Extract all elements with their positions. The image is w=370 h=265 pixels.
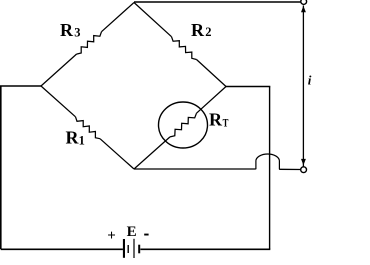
wire hop (crossover of right vertical bus) [256,154,280,169]
wire: diamond bottom-left segment (R1 to bottom vertex) [100,139,134,169]
resistor RT (thermistor) [170,113,197,137]
svg-text:E: E [127,224,137,240]
terminal (bottom, open circle) [301,167,307,173]
svg-text:+: + [107,228,116,244]
resistor R1 [76,117,101,139]
wire: left vertical bus [0,86,2,249]
label - [144,234,148,236]
wire: diamond top-left segment (left vertex to R3) [41,54,77,86]
wire: diamond bottom-right segment (bottom vertex to RT) [134,137,170,169]
wire: right vertex to right bus corner [226,86,270,88]
svg-text:R: R [66,128,80,148]
svg-text:2: 2 [205,25,211,39]
svg-text:3: 3 [74,26,80,40]
terminal (top, open circle) [301,0,307,4]
battery E: plate 1 (long, +) [123,239,125,258]
arrowhead (current i, down) [301,159,306,165]
wire: diamond bottom-left segment (left vertex to R1) [41,86,76,117]
svg-text:R: R [60,20,74,40]
wire: hop to bottom terminal [279,168,301,170]
battery E: plate 3 (long) [133,239,134,258]
arrowhead (current i, up) [301,6,306,12]
battery E: plate 4 (short, -) [138,245,140,254]
resistor R3 [77,32,102,54]
battery E: plate 2 (short) [128,245,129,253]
wire: top vertex to top terminal [134,1,301,3]
wire: bottom vertex to hop [134,168,256,170]
svg-text:T: T [223,116,229,130]
svg-text:R: R [209,109,223,129]
wire: diamond bottom-right segment (RT to right vertex) [197,87,227,114]
svg-text:1: 1 [79,134,85,148]
wire: diamond top-right segment (R2 to right vertex) [197,60,227,87]
wire: right vertical bus (passes under hop) [269,87,271,250]
wire: left vertex to left bus [0,85,41,87]
wire: diamond top-left segment (R3 to top vertex) [102,3,135,32]
wire: bottom bus (left of battery) [1,248,123,250]
svg-text:R: R [191,20,205,40]
thermistor circle [159,102,208,148]
wire: diamond top-right segment (top vertex to R2) [134,3,172,37]
wire: right vertical (galvanometer branch) [302,6,304,167]
svg-text:i: i [308,73,312,88]
resistor R2 [172,37,197,60]
wire: bottom bus (right of battery) [140,248,270,250]
